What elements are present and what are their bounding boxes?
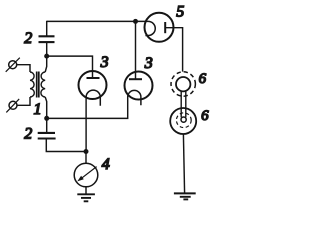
wire secondary bottom lead <box>45 97 47 118</box>
svg-text:6: 6 <box>201 108 209 124</box>
wire meter top lead <box>85 152 87 164</box>
wire top bus <box>47 20 146 22</box>
node junction left lower <box>44 116 49 121</box>
meter P4 body <box>74 163 98 187</box>
svg-text:1: 1 <box>34 101 42 118</box>
wire lower cap top lead <box>46 118 48 132</box>
wire upper cap top lead <box>46 21 48 36</box>
wire to tube V1 anode <box>47 56 93 78</box>
tube V5 envelope <box>145 13 174 42</box>
tube V2 cathode arc <box>128 90 141 105</box>
wire lower cap to meter node <box>46 139 86 152</box>
lamp 6 bottom filament dot <box>181 117 186 122</box>
ground (meter) <box>77 193 95 195</box>
tube V5 anode bar <box>164 22 166 33</box>
wire V5 anode to lamp <box>165 28 182 72</box>
meter P4 needle <box>80 167 97 180</box>
wire tube V1 cathode lead <box>85 97 87 151</box>
tube V1 anode bar <box>87 77 100 79</box>
tube V2 envelope <box>125 72 153 100</box>
tube V5 cathode arc <box>145 21 155 35</box>
tube V2 anode bar <box>129 78 142 80</box>
lamp 6 bottom envelope <box>170 108 196 134</box>
svg-text:6: 6 <box>199 71 207 87</box>
capacitor C2 upper <box>39 36 55 42</box>
tube V1 envelope <box>79 71 107 99</box>
svg-text:5: 5 <box>176 4 184 21</box>
transformer T1 secondary winding <box>41 72 45 97</box>
terminal antenna bottom <box>9 101 17 109</box>
node junction top bus <box>133 19 138 24</box>
lamp 6 top inner bulb <box>176 77 190 91</box>
svg-text:2: 2 <box>24 126 32 143</box>
wire meter bottom lead <box>85 187 87 194</box>
svg-text:3: 3 <box>144 55 153 72</box>
transformer T1 core <box>36 72 38 98</box>
lamp 6 bottom inner dashed circle <box>176 113 191 128</box>
svg-text:4: 4 <box>102 156 110 173</box>
ground (right) <box>174 192 196 194</box>
node junction left upper <box>44 54 49 59</box>
node junction meter <box>84 149 89 154</box>
tube V1 cathode arc <box>86 90 100 106</box>
wire lamp to ground <box>183 134 184 193</box>
wire V2 cathode to left node <box>47 97 128 118</box>
lamp 6 top envelope (dashed) <box>171 72 195 96</box>
svg-text:2: 2 <box>24 30 32 47</box>
wire tube V2 anode lead <box>135 21 137 79</box>
wire terminal to primary top <box>17 65 30 72</box>
terminal antenna top <box>9 61 17 69</box>
capacitor C2 lower <box>38 133 56 139</box>
wire secondary top lead <box>45 56 47 72</box>
svg-text:3: 3 <box>100 54 109 71</box>
wire upper cap bottom lead <box>46 42 48 56</box>
transformer T1 primary winding <box>30 72 34 97</box>
wire primary bottom to terminal <box>17 97 30 105</box>
lamp stem double line <box>180 91 182 118</box>
